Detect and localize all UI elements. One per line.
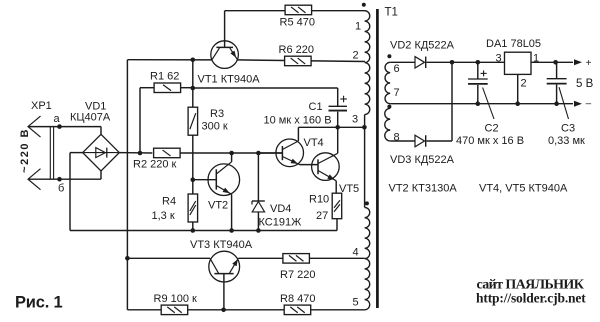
svg-text:VD2 КД522А: VD2 КД522А [390,40,455,52]
svg-text:+: + [586,58,592,69]
svg-text:VT4: VT4 [304,137,324,149]
svg-text:C3: C3 [561,123,575,135]
svg-text:R9 100 к: R9 100 к [154,293,198,305]
svg-text:R6 220: R6 220 [279,44,314,56]
svg-text:470 мк х 16 В: 470 мк х 16 В [456,135,524,147]
svg-text:1: 1 [355,21,361,33]
svg-text:R3: R3 [210,108,224,120]
svg-text:R7 220: R7 220 [280,269,315,281]
svg-text:3: 3 [496,53,502,65]
svg-text:Т1: Т1 [385,7,398,19]
svg-text:DA1 78L05: DA1 78L05 [486,38,541,50]
svg-text:а: а [54,113,61,125]
svg-text:C2: C2 [485,123,499,135]
svg-text:VD4: VD4 [270,203,291,215]
svg-text:2: 2 [521,78,527,90]
svg-text:1,3 к: 1,3 к [152,210,175,222]
svg-text:Рис. 1: Рис. 1 [15,294,62,312]
svg-text:6: 6 [394,63,400,75]
svg-text:КЦ407А: КЦ407А [70,112,111,124]
svg-text:27: 27 [316,210,328,222]
svg-text:R4: R4 [162,196,176,208]
svg-text:2: 2 [353,50,359,62]
svg-text:VT1 КТ940А: VT1 КТ940А [198,74,261,86]
svg-text:C1: C1 [309,101,323,113]
svg-text:VD3 КД522А: VD3 КД522А [390,154,455,166]
svg-text:300 к: 300 к [202,121,228,133]
svg-text:КС191Ж: КС191Ж [259,217,302,229]
svg-text:http://solder.cjb.net: http://solder.cjb.net [476,291,586,306]
svg-text:VT2 КТ3130А: VT2 КТ3130А [389,183,458,195]
svg-text:4: 4 [353,247,359,259]
svg-text:VT3 КТ940А: VT3 КТ940А [190,239,253,251]
svg-text:R10: R10 [309,194,329,206]
svg-text:5 В: 5 В [576,78,594,90]
svg-text:б: б [58,183,64,195]
svg-text:0,33 мк: 0,33 мк [548,135,585,147]
svg-text:R5 470: R5 470 [280,16,315,28]
svg-text:VT2: VT2 [208,200,228,212]
svg-text:7: 7 [394,87,400,99]
svg-text:R8 470: R8 470 [280,293,315,305]
svg-text:10 мк х 160 В: 10 мк х 160 В [264,114,332,126]
svg-text:R2 220 к: R2 220 к [133,159,177,171]
svg-text:R1 62: R1 62 [150,71,179,83]
svg-text:3: 3 [352,114,358,126]
svg-text:1: 1 [533,53,539,65]
svg-text:VT5: VT5 [339,183,359,195]
svg-text:ХР1: ХР1 [31,100,52,112]
svg-text:~220 В: ~220 В [19,128,31,173]
svg-text:5: 5 [353,297,359,309]
svg-text:VT4, VT5 КТ940А: VT4, VT5 КТ940А [479,183,568,195]
svg-text:–: – [586,98,592,109]
